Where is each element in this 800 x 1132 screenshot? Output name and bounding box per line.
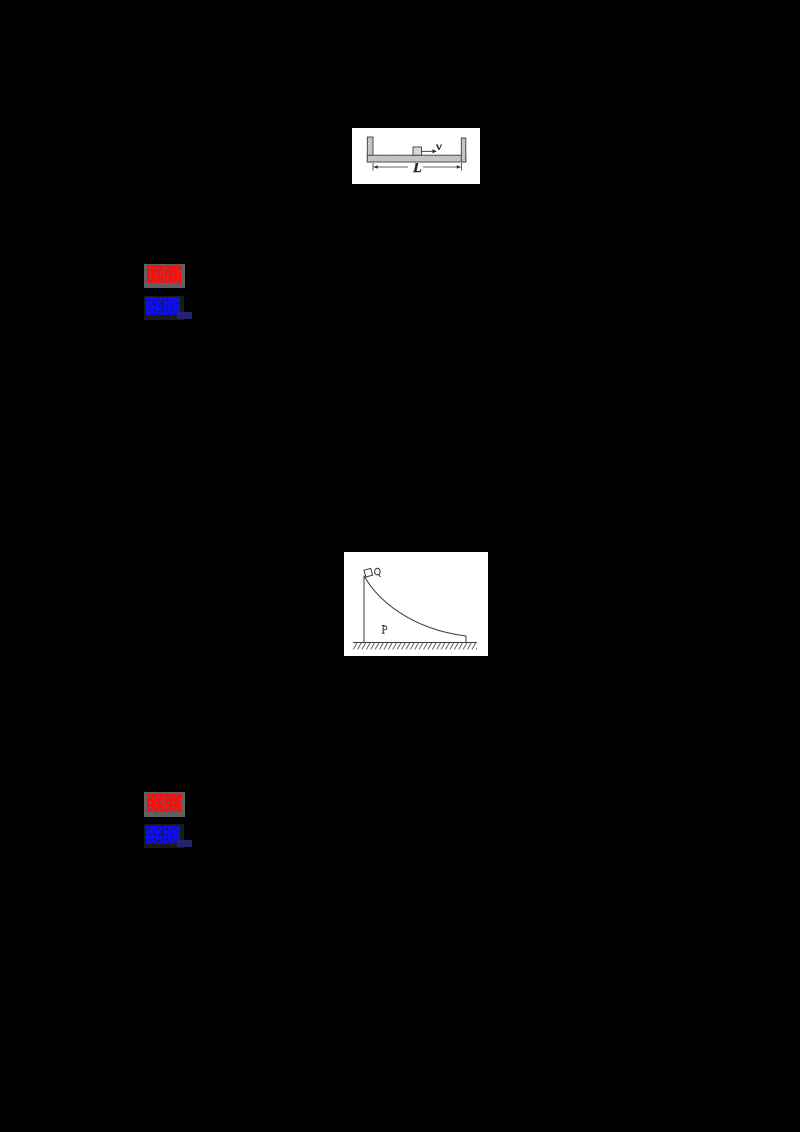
left extension line: [372, 163, 374, 171]
analysis label 2: navy selection box: [177, 840, 192, 847]
channel left wall: [367, 137, 373, 162]
dimension line right segment with arrowhead: [423, 165, 461, 168]
analysis label 2: blue text: [146, 826, 181, 849]
answer label 2: gray highlight box: [144, 792, 185, 817]
analysis label 1: navy selection box: [177, 312, 192, 319]
dimension line left segment with arrowhead: [373, 165, 408, 168]
analysis label 1: blue text: [146, 297, 181, 320]
analysis label 1: dark highlight box: [144, 296, 184, 320]
ground hatching: [353, 643, 477, 650]
channel bottom slab: [367, 155, 466, 162]
channel right wall: [461, 138, 466, 162]
answer label 2: red text: [147, 794, 181, 817]
figure 1: U-channel with sliding block, velocity arrow v, length L: [352, 128, 480, 184]
label L: [413, 163, 422, 172]
label Q: [375, 568, 381, 576]
block on channel: [413, 147, 422, 155]
figure 2: curved ramp, block Q at top, point P, hatched ground: [344, 552, 488, 656]
answer label 1: red text: [147, 265, 181, 288]
answer label 1: gray highlight box: [144, 264, 185, 289]
vertical pole: [363, 576, 365, 643]
velocity arrow: [422, 149, 437, 153]
right extension line: [461, 163, 463, 171]
label v: [436, 144, 442, 150]
ground line: [353, 642, 477, 644]
curved ramp surface: [365, 577, 467, 643]
label P: [382, 626, 387, 634]
analysis label 2: dark highlight box: [144, 824, 184, 848]
tilted block at top: [364, 568, 373, 577]
